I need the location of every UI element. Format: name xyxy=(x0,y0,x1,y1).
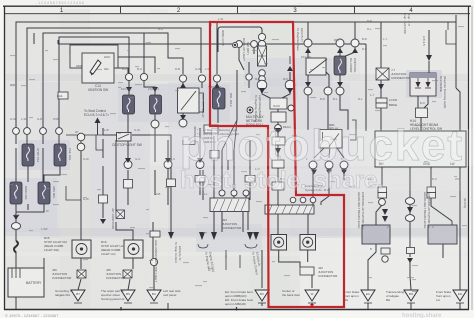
svg-text:© 19970 - 1234567 - 1234567: © 19970 - 1234567 - 1234567 xyxy=(5,313,59,318)
svg-text:hosting.share: hosting.share xyxy=(402,313,442,318)
svg-text:- 1 2 3 4 5 6 7 8 9 0 1 2 3 4: - 1 2 3 4 5 6 7 8 9 0 1 2 3 4 5 6 xyxy=(36,1,84,5)
